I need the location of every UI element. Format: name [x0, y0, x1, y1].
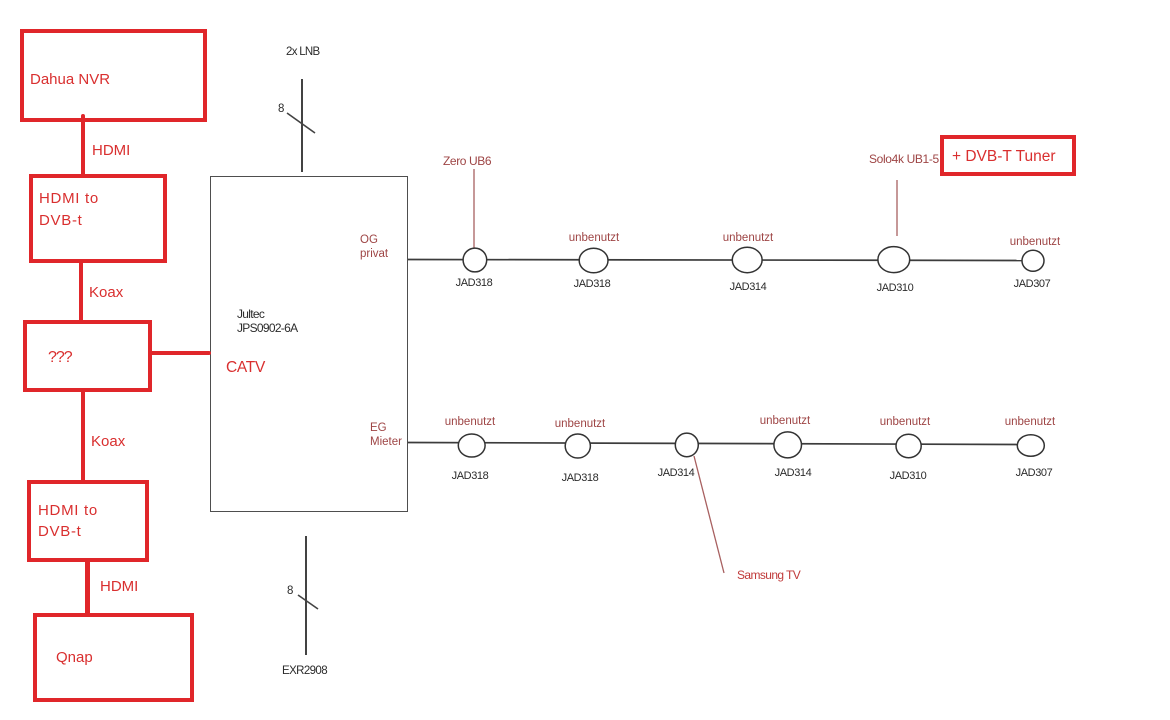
box Jultec JPS0902-6A multiswitch — [210, 176, 408, 512]
wire EXR2908 feed vertical — [305, 536, 307, 655]
tap JAD314 OG-3 — [732, 247, 762, 272]
label HDMI to DVB-t (lower) — [38, 500, 98, 542]
box HDMI to DVB-t (lower) — [27, 480, 149, 562]
tap JAD307 OG-5 — [1022, 250, 1044, 271]
box Dahua NVR — [20, 29, 207, 122]
wire LNB feed vertical — [301, 79, 303, 172]
label EG Mieter — [370, 421, 402, 449]
label EXR2908 — [282, 665, 327, 677]
label 8 (EXR cable count) — [287, 585, 293, 597]
label Qnap — [56, 649, 93, 666]
box Qnap — [33, 613, 194, 702]
tap JAD318 OG-2 — [579, 248, 608, 273]
label unbenutzt EG-1 — [430, 416, 510, 428]
box ??? — [23, 320, 152, 392]
label JAD310 OG-4 — [855, 282, 935, 294]
label ??? — [48, 349, 72, 367]
label Zero UB6 — [443, 154, 491, 168]
wire LNB slash (8 cables) — [287, 113, 315, 133]
label unbenutzt OG-3 — [708, 232, 788, 244]
label JAD314 EG-4 — [753, 467, 833, 479]
label JAD307 OG-5 — [992, 278, 1072, 290]
label HDMI — [92, 142, 130, 159]
label unbenutzt OG-5 — [995, 236, 1075, 248]
tap JAD314 EG-4 — [774, 432, 802, 458]
label HDMI to DVB-t (upper) — [39, 188, 99, 232]
tap JAD307 EG-6 — [1017, 435, 1044, 457]
label unbenutzt EG-2 — [540, 418, 620, 430]
label JAD318 OG-1 — [434, 277, 514, 289]
wire OG trunk line — [408, 260, 1025, 261]
tap JAD318 OG-1 — [463, 248, 487, 272]
tap JAD314 EG-3 — [675, 433, 698, 457]
label CATV — [226, 359, 265, 377]
label unbenutzt EG-6 — [990, 416, 1070, 428]
tap JAD310 EG-5 — [896, 434, 921, 457]
label unbenutzt EG-4 — [745, 415, 825, 427]
label unbenutzt EG-5 — [865, 416, 945, 428]
tap JAD318 EG-1 — [458, 434, 485, 457]
label + DVB-T Tuner — [952, 148, 1056, 166]
label 8 (LNB cable count) — [278, 103, 284, 115]
wire Zero UB6 pointer — [473, 169, 475, 248]
label JAD318 EG-2 — [540, 472, 620, 484]
label 2x LNB — [286, 46, 320, 58]
tap JAD318 EG-2 — [565, 434, 590, 458]
wire EG trunk line — [408, 443, 1020, 445]
wire HDMI (to Qnap) — [85, 558, 89, 623]
label Koax (upper) — [89, 284, 123, 301]
wire HDMI (Dahua NVR to HDMI-to-DVB-t) — [81, 114, 85, 178]
wire Koax (lower) — [81, 390, 85, 486]
label Jultec JPS0902-6A — [237, 307, 297, 335]
wire EXR slash (8 cables) — [298, 595, 318, 609]
label JAD307 EG-6 — [994, 467, 1074, 479]
box + DVB-T Tuner — [940, 135, 1076, 176]
label Koax (lower) — [91, 433, 125, 450]
wire Samsung TV pointer — [694, 456, 724, 573]
label OG privat — [360, 233, 388, 261]
label JAD318 OG-2 — [552, 278, 632, 290]
label JAD318 EG-1 — [430, 470, 510, 482]
tap JAD310 OG-4 — [878, 247, 910, 273]
wire Solo4k pointer — [896, 180, 898, 236]
label unbenutzt OG-2 — [554, 232, 634, 244]
label HDMI (lower) — [100, 578, 138, 595]
wire Koax (upper) — [79, 261, 83, 324]
wire CATV (??? to Jultec) — [148, 351, 211, 355]
label JAD314 OG-3 — [708, 281, 788, 293]
label Samsung TV — [737, 568, 800, 582]
label Dahua NVR — [30, 71, 110, 88]
label JAD310 EG-5 — [868, 470, 948, 482]
box HDMI to DVB-t (upper) — [29, 174, 167, 263]
label JAD314 EG-3 — [636, 467, 716, 479]
label Solo4k UB1-5 — [869, 152, 939, 166]
